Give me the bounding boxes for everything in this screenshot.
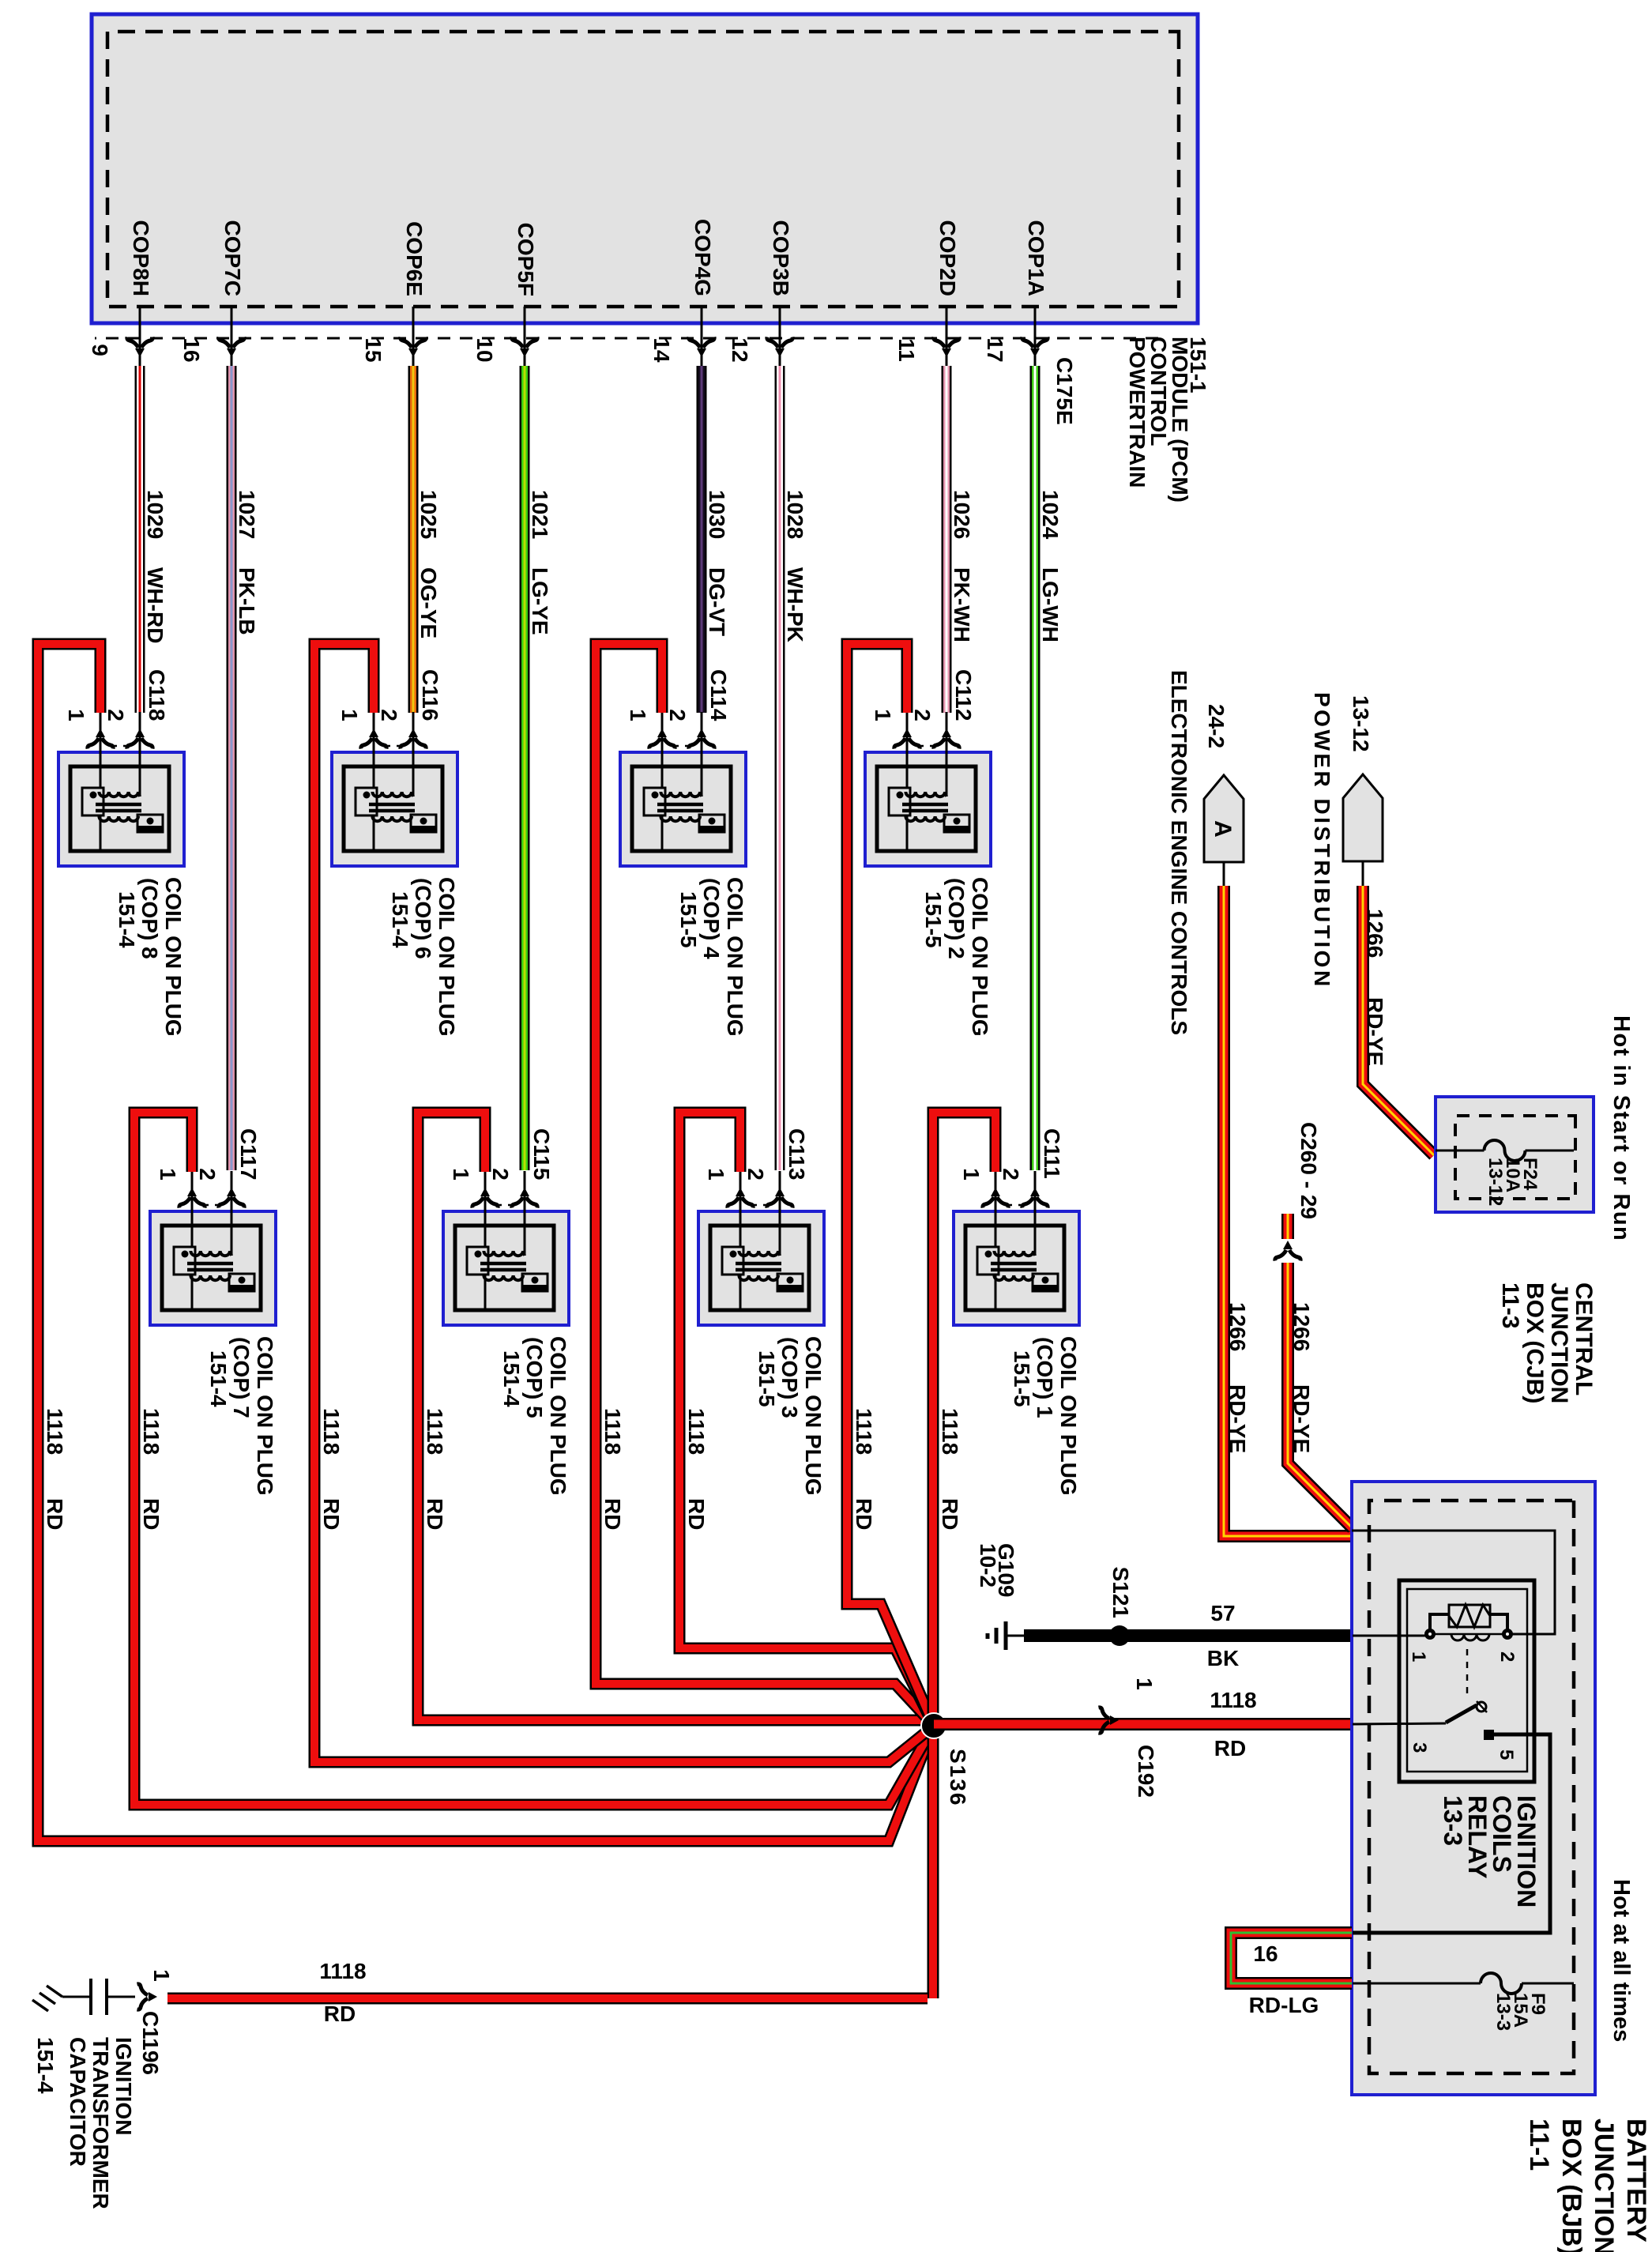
svg-text:COP1A: COP1A <box>1024 220 1048 296</box>
fuse F24 10A <box>1436 1150 1485 1152</box>
COP4 secondary terminal block with polarity dot <box>699 815 724 832</box>
capacitor ground lead <box>62 1996 91 1998</box>
COP2 transformer primary winding <box>905 792 946 796</box>
svg-text:COIL ON PLUG: COIL ON PLUG <box>435 877 459 1037</box>
svg-text:BOX (BJB): BOX (BJB) <box>1556 2118 1586 2252</box>
svg-text:11: 11 <box>894 338 919 362</box>
relay pin 5 contact <box>1484 1730 1494 1740</box>
COP3 primary terminal block with polarity dot <box>722 1247 743 1275</box>
wire 1118 RD from COP8 pin 1 to splice S136 <box>38 644 934 1841</box>
svg-text:COP3B: COP3B <box>769 220 793 296</box>
svg-text:1027: 1027 <box>235 490 259 539</box>
svg-text:RD: RD <box>938 1498 962 1530</box>
COP4 transformer primary winding <box>660 792 702 796</box>
svg-text:PK-WH: PK-WH <box>950 567 974 642</box>
svg-text:1: 1 <box>626 709 650 721</box>
svg-text:COIL ON PLUG: COIL ON PLUG <box>161 877 186 1037</box>
COP5 secondary lead to case <box>484 1275 487 1310</box>
svg-text:1118: 1118 <box>852 1408 876 1455</box>
COP2 connector arrows and dashes <box>934 729 959 749</box>
svg-text:5: 5 <box>1496 1749 1517 1760</box>
svg-text:13-3: 13-3 <box>1492 1993 1514 2031</box>
connector arrow C175E pin 9 <box>127 337 152 358</box>
connector arrow C175E pin 12 <box>767 337 792 358</box>
connector C260-29 arrow <box>1275 1241 1300 1261</box>
svg-text:151-5: 151-5 <box>1010 1350 1034 1407</box>
COP6 transformer primary winding <box>372 792 413 796</box>
wire 1118 RD from COP1 pin 1 to splice S136 <box>933 1113 995 1998</box>
svg-text:151-4: 151-4 <box>115 891 139 948</box>
svg-text:CAPACITOR: CAPACITOR <box>66 2037 90 2167</box>
pin stub wire COP1A <box>1034 307 1037 369</box>
wire 1118 RD from COP2 pin 1 to splice S136 <box>847 644 934 1726</box>
wire 1266 RD-YE from CJB to BJB with in-line connector C260-29 <box>1281 1214 1294 1239</box>
splice S136 dot <box>921 1713 946 1738</box>
svg-text:24-2: 24-2 <box>1204 704 1229 748</box>
capacitor C1196 lead <box>107 1996 135 1998</box>
off-page connector pentagon (power distribution) <box>1343 774 1383 861</box>
svg-text:COP2D: COP2D <box>935 220 960 296</box>
COP3 secondary lead to case <box>739 1275 742 1310</box>
svg-text:C192: C192 <box>1134 1745 1158 1798</box>
COP8 transformer secondary winding <box>99 816 138 821</box>
svg-text:151-4: 151-4 <box>388 891 412 948</box>
COP7 secondary terminal block with polarity dot <box>229 1274 254 1291</box>
svg-text:1118: 1118 <box>938 1408 962 1455</box>
svg-text:151-5: 151-5 <box>921 891 946 948</box>
svg-text:1: 1 <box>64 709 88 721</box>
svg-text:151-5: 151-5 <box>755 1350 779 1407</box>
COP7 secondary lead to case <box>191 1275 194 1310</box>
COP1 secondary lead to case <box>995 1275 997 1310</box>
COP8 inner case <box>70 766 169 851</box>
COP1 pin 1 lead <box>995 1171 997 1248</box>
svg-text:1118: 1118 <box>1210 1688 1256 1712</box>
COP3 secondary terminal block with polarity dot <box>777 1274 803 1291</box>
svg-text:16: 16 <box>1253 1941 1278 1966</box>
COP8 connector arrows and dashes <box>127 729 152 749</box>
svg-text:RD-YE: RD-YE <box>1363 997 1387 1066</box>
svg-text:1266: 1266 <box>1363 909 1387 958</box>
svg-text:2: 2 <box>743 1168 768 1181</box>
COP8 secondary terminal block with polarity dot <box>137 815 163 832</box>
svg-text:S121: S121 <box>1108 1567 1133 1618</box>
COP5 transformer primary winding <box>484 1251 525 1256</box>
COP5 pin 1 lead <box>484 1171 487 1248</box>
chassis ground symbol at capacitor <box>32 1986 62 2011</box>
svg-text:1: 1 <box>871 709 895 721</box>
connector arrow C175E pin 10 <box>512 337 537 358</box>
relay armature dashed link <box>1466 1649 1469 1697</box>
svg-text:1: 1 <box>704 1168 728 1181</box>
COP1 inner case <box>965 1226 1064 1310</box>
svg-text:BK: BK <box>1207 1646 1239 1670</box>
relay winding baseline between pins 1 and 2 <box>1434 1633 1503 1636</box>
svg-text:JUNCTION: JUNCTION <box>1589 2118 1619 2252</box>
connector C192 arrow <box>1099 1708 1120 1733</box>
pin stub wire COP4G <box>701 307 703 369</box>
COP4 primary terminal block with polarity dot <box>644 788 665 815</box>
BJB dashed border <box>1369 1501 1574 2073</box>
svg-text:13-12: 13-12 <box>1349 695 1373 752</box>
svg-text:1118: 1118 <box>43 1408 67 1455</box>
relay pin 1 terminal <box>1424 1629 1436 1640</box>
svg-text:RD: RD <box>43 1498 67 1530</box>
COP8 pin 1 lead <box>100 712 102 789</box>
COP7 pin 1 lead <box>191 1171 194 1248</box>
COP1 transformer secondary winding <box>994 1275 1033 1280</box>
wire 1028 WH-PK (PCM COP3B to COP3 pin 2) <box>775 366 785 1170</box>
wire 1025 OG-YE (PCM COP6E to COP6 pin 2) <box>408 366 419 713</box>
central junction box (CJB) <box>1436 1097 1594 1212</box>
COP4 inner case <box>632 766 731 851</box>
svg-text:2: 2 <box>1496 1651 1518 1662</box>
coil on plug COP3 box <box>698 1211 824 1325</box>
svg-text:(COP) 5: (COP) 5 <box>522 1337 547 1418</box>
svg-text:DG-VT: DG-VT <box>705 567 729 636</box>
COP5 connector arrows and dashes <box>512 1188 537 1208</box>
COP7 inner case <box>162 1226 261 1310</box>
svg-text:1026: 1026 <box>950 490 974 539</box>
wire 1118 RD from splice S136 to ignition transformer capacitor <box>167 1993 928 2005</box>
pin stub wire COP8H <box>139 307 141 369</box>
svg-text:(COP) 2: (COP) 2 <box>944 878 969 959</box>
svg-text:17: 17 <box>983 337 1007 362</box>
connector arrow C175E pin 17 <box>1022 337 1048 358</box>
svg-text:11-1: 11-1 <box>1524 2118 1554 2171</box>
svg-text:ELECTRONIC ENGINE CONTROLS: ELECTRONIC ENGINE CONTROLS <box>1167 670 1191 1035</box>
COP2 secondary terminal block with polarity dot <box>944 815 969 832</box>
svg-text:10: 10 <box>472 337 497 362</box>
svg-text:C115: C115 <box>529 1128 554 1180</box>
COP1 secondary terminal block with polarity dot <box>1033 1274 1058 1291</box>
relay coil winding <box>1451 1634 1489 1640</box>
svg-text:2: 2 <box>910 709 935 721</box>
relay pin 2 terminal <box>1502 1629 1513 1640</box>
svg-text:RD: RD <box>319 1498 344 1530</box>
COP2 secondary lead to case <box>906 816 909 851</box>
svg-text:13-12: 13-12 <box>1485 1158 1506 1206</box>
svg-text:WH-PK: WH-PK <box>783 567 807 642</box>
wire 1026 PK-WH (PCM COP2D to COP2 pin 2) <box>942 366 952 713</box>
wire 1030 DG-VT (PCM COP4G to COP4 pin 2) <box>697 366 707 713</box>
connector arrow C175E pin 15 <box>401 337 426 358</box>
svg-text:RD: RD <box>600 1498 625 1530</box>
svg-text:COP8H: COP8H <box>129 220 153 296</box>
ignition coils relay outer box <box>1399 1580 1534 1782</box>
wire 1029 WH-RD (PCM COP8H to COP8 pin 2) <box>135 366 145 713</box>
svg-text:C1196: C1196 <box>138 2011 163 2075</box>
svg-text:11-3: 11-3 <box>1497 1282 1523 1328</box>
svg-text:151-4: 151-4 <box>33 2037 58 2094</box>
svg-text:1266: 1266 <box>1289 1302 1314 1351</box>
svg-text:1118: 1118 <box>684 1408 709 1455</box>
svg-text:(COP) 7: (COP) 7 <box>229 1337 254 1418</box>
svg-text:9: 9 <box>88 344 112 356</box>
svg-text:COP7C: COP7C <box>220 220 245 296</box>
COP1 pin 2 lead <box>1034 1171 1037 1256</box>
COP2 pin 2 lead <box>946 712 948 796</box>
svg-text:1118: 1118 <box>423 1408 447 1455</box>
svg-text:RD: RD <box>852 1498 876 1530</box>
COP6 inner case <box>344 766 442 851</box>
svg-text:S136: S136 <box>946 1749 970 1806</box>
COP2 pin 1 lead <box>906 712 909 789</box>
svg-text:2: 2 <box>488 1168 513 1181</box>
COP3 pin 2 lead <box>779 1171 781 1256</box>
svg-text:(COP) 6: (COP) 6 <box>411 878 435 959</box>
COP8 secondary lead to case <box>100 816 102 851</box>
svg-text:2: 2 <box>195 1168 220 1181</box>
off-page connector pentagon A <box>1204 775 1244 862</box>
relay coil leads <box>1430 1614 1507 1634</box>
wire 1118 RD from COP5 pin 1 to splice S136 <box>418 1113 934 1726</box>
svg-text:1: 1 <box>959 1168 984 1181</box>
relay moving contact <box>1477 1702 1486 1712</box>
svg-text:RD: RD <box>684 1498 709 1530</box>
svg-text:2: 2 <box>999 1168 1023 1181</box>
svg-text:A: A <box>1210 820 1236 838</box>
svg-text:2: 2 <box>665 709 690 721</box>
coil on plug COP1 box <box>954 1211 1079 1325</box>
CJB dashed border <box>1455 1116 1575 1199</box>
svg-text:1266: 1266 <box>1225 1302 1250 1351</box>
svg-text:C111: C111 <box>1040 1128 1064 1179</box>
lead from pentagon A <box>1223 862 1225 887</box>
COP4 transformer secondary winding <box>660 816 700 821</box>
svg-text:C116: C116 <box>418 669 442 721</box>
relay switch arm <box>1446 1705 1477 1723</box>
wire 1021 LG-YE (PCM COP5F to COP5 pin 2) <box>520 366 530 1170</box>
svg-text:IGNITION: IGNITION <box>111 2037 136 2135</box>
svg-text:(COP) 4: (COP) 4 <box>699 878 724 959</box>
svg-text:OG-YE: OG-YE <box>416 567 441 638</box>
COP6 connector arrows and dashes <box>401 729 426 749</box>
svg-text:LG-YE: LG-YE <box>528 567 552 635</box>
ground G109 symbol <box>1006 1635 1024 1637</box>
svg-text:CENTRAL: CENTRAL <box>1571 1282 1597 1395</box>
svg-text:15: 15 <box>361 337 386 362</box>
svg-text:C113: C113 <box>785 1128 809 1180</box>
lead from power distribution pentagon <box>1362 861 1364 887</box>
BJB internal lead from RD-YE entry to relay pin 2 <box>1352 1531 1555 1634</box>
COP6 secondary lead to case <box>373 816 375 851</box>
COP3 transformer secondary winding <box>739 1275 778 1280</box>
svg-text:COIL ON PLUG: COIL ON PLUG <box>801 1336 826 1496</box>
connector C175E dashed line <box>95 337 1158 340</box>
svg-text:COIL ON PLUG: COIL ON PLUG <box>968 877 992 1037</box>
coil on plug COP5 box <box>443 1211 569 1325</box>
svg-text:16: 16 <box>179 337 204 362</box>
svg-text:JUNCTION: JUNCTION <box>1546 1282 1572 1403</box>
COP8 primary terminal block with polarity dot <box>82 788 103 815</box>
relay coil resistor box with zigzag <box>1449 1605 1490 1627</box>
svg-text:POWERTRAIN: POWERTRAIN <box>1125 337 1150 488</box>
COP6 primary terminal block with polarity dot <box>356 788 377 815</box>
svg-text:1118: 1118 <box>319 1959 366 1983</box>
svg-text:POWER DISTRIBUTION: POWER DISTRIBUTION <box>1310 692 1334 989</box>
svg-text:1028: 1028 <box>783 490 807 539</box>
svg-text:Hot in Start or Run: Hot in Start or Run <box>1609 1015 1634 1241</box>
connector arrow C175E pin 16 <box>219 337 244 358</box>
svg-text:RD: RD <box>423 1498 447 1530</box>
capacitor C1196 plates <box>105 1979 108 2015</box>
svg-text:57: 57 <box>1210 1601 1235 1625</box>
COP7 transformer primary winding <box>190 1251 231 1256</box>
COP5 inner case <box>455 1226 554 1310</box>
svg-text:C260 - 29: C260 - 29 <box>1296 1122 1321 1219</box>
wire 57 BK from relay pin 1 to ground G109 <box>1024 1629 1351 1642</box>
COP2 transformer core <box>902 804 948 811</box>
svg-text:C118: C118 <box>145 669 169 721</box>
PCM module box (POWERTRAIN CONTROL MODULE) <box>92 14 1198 323</box>
wire 1118 RD from splice S136 to ignition coils relay pin 3 <box>934 1718 1351 1730</box>
svg-text:LG-WH: LG-WH <box>1038 567 1063 642</box>
COP6 secondary terminal block with polarity dot <box>411 815 436 832</box>
COP3 inner case <box>710 1226 809 1310</box>
svg-text:COIL ON PLUG: COIL ON PLUG <box>1056 1336 1081 1496</box>
COP3 transformer core <box>736 1263 781 1270</box>
svg-text:C114: C114 <box>706 669 731 721</box>
wire 1118 RD from COP6 pin 1 to splice S136 <box>314 644 934 1762</box>
svg-text:RD: RD <box>139 1498 164 1530</box>
svg-text:(COP) 3: (COP) 3 <box>777 1337 802 1418</box>
COP8 transformer core <box>96 804 141 811</box>
svg-text:1118: 1118 <box>319 1408 344 1455</box>
svg-text:TRANSFORMER: TRANSFORMER <box>88 2037 113 2209</box>
svg-text:1: 1 <box>1132 1678 1157 1690</box>
svg-text:C175E: C175E <box>1052 357 1077 425</box>
COP2 inner case <box>877 766 976 851</box>
svg-text:COIL ON PLUG: COIL ON PLUG <box>253 1336 277 1496</box>
ignition coils relay inner box <box>1407 1589 1527 1772</box>
svg-text:10-2: 10-2 <box>976 1543 1000 1587</box>
COP5 transformer secondary winding <box>484 1275 523 1280</box>
BJB internal lead 1118 RD to relay pin 3 <box>1353 1723 1446 1724</box>
pin stub wire COP7C <box>231 307 233 369</box>
COP5 primary terminal block with polarity dot <box>467 1247 488 1275</box>
COP7 transformer secondary winding <box>190 1275 230 1280</box>
svg-text:BATTERY: BATTERY <box>1621 2118 1651 2243</box>
wire 1027 PK-LB (PCM COP7C to COP7 pin 2) <box>227 366 237 1170</box>
coil on plug COP7 box <box>150 1211 276 1325</box>
svg-text:2: 2 <box>377 709 401 721</box>
svg-text:1: 1 <box>156 1168 180 1181</box>
svg-text:Hot at all times: Hot at all times <box>1609 1879 1634 2042</box>
svg-text:COIL ON PLUG: COIL ON PLUG <box>723 877 747 1037</box>
COP5 transformer core <box>480 1263 526 1270</box>
svg-text:RD: RD <box>324 2002 356 2026</box>
svg-text:COIL ON PLUG: COIL ON PLUG <box>546 1336 570 1496</box>
COP7 primary terminal block with polarity dot <box>174 1247 195 1275</box>
wire 1266 RD-YE from electronic engine controls to BJB <box>1224 886 1351 1536</box>
connector C1196 arrow <box>137 1984 158 2009</box>
battery junction box (BJB) <box>1352 1482 1595 2095</box>
svg-text:1025: 1025 <box>416 490 441 539</box>
svg-text:RD-YE: RD-YE <box>1225 1384 1250 1453</box>
svg-text:(COP) 8: (COP) 8 <box>137 878 162 959</box>
COP1 transformer primary winding <box>994 1251 1035 1256</box>
connector arrow C175E pin 11 <box>934 337 959 358</box>
svg-text:1118: 1118 <box>139 1408 164 1455</box>
COP6 transformer secondary winding <box>372 816 412 821</box>
svg-text:RD: RD <box>1214 1736 1246 1761</box>
PCM inner dashed border <box>107 32 1179 307</box>
svg-text:1: 1 <box>1408 1651 1429 1662</box>
svg-text:14: 14 <box>649 337 674 363</box>
COP3 pin 1 lead <box>739 1171 742 1248</box>
wire 1118 RD from COP3 pin 1 to splice S136 <box>679 1113 934 1726</box>
COP5 secondary terminal block with polarity dot <box>522 1274 548 1291</box>
svg-text:3: 3 <box>1409 1742 1430 1753</box>
wire 1118 RD from COP7 pin 1 to splice S136 <box>134 1113 934 1805</box>
pin stub wire COP5F <box>524 307 526 369</box>
svg-text:COP5F: COP5F <box>514 223 538 296</box>
coil on plug COP6 box <box>332 752 457 866</box>
connector arrow C175E pin 14 <box>689 337 714 358</box>
svg-text:1030: 1030 <box>705 490 729 539</box>
COP1 primary terminal block with polarity dot <box>977 1247 999 1275</box>
wire 16 RD-LG loop below BJB <box>1231 1933 1352 1983</box>
svg-text:C117: C117 <box>236 1128 261 1180</box>
COP4 pin 2 lead <box>701 712 703 796</box>
svg-text:RD-LG: RD-LG <box>1249 1993 1319 2017</box>
svg-text:1118: 1118 <box>600 1408 625 1455</box>
wire 1024 LG-WH (PCM COP1A to COP1 pin 2) <box>1030 366 1040 1170</box>
svg-text:WH-RD: WH-RD <box>143 567 167 643</box>
BJB internal lead to fuse F9 <box>1353 1983 1481 1985</box>
COP6 pin 1 lead <box>373 712 375 789</box>
COP6 transformer core <box>369 804 415 811</box>
svg-text:1024: 1024 <box>1038 490 1063 540</box>
COP8 transformer primary winding <box>99 792 140 796</box>
pin stub wire COP3B <box>779 307 781 369</box>
svg-text:1029: 1029 <box>143 490 167 539</box>
svg-text:151-4: 151-4 <box>499 1350 524 1407</box>
BJB internal lead from relay pin 5 to fuse F9 side <box>1353 1734 1550 1933</box>
COP4 transformer core <box>657 804 703 811</box>
COP1 connector arrows and dashes <box>1022 1188 1048 1208</box>
splice S121 dot <box>1109 1625 1130 1646</box>
svg-text:12: 12 <box>728 337 752 362</box>
COP7 transformer core <box>187 1263 233 1270</box>
COP7 connector arrows and dashes <box>219 1188 244 1208</box>
svg-text:1: 1 <box>337 709 362 721</box>
COP6 pin 2 lead <box>412 712 415 796</box>
COP4 connector arrows and dashes <box>689 729 714 749</box>
COP2 primary terminal block with polarity dot <box>889 788 910 815</box>
svg-text:1: 1 <box>449 1168 473 1181</box>
svg-text:151-5: 151-5 <box>676 891 701 948</box>
COP8 pin 2 lead <box>139 712 141 796</box>
COP4 pin 1 lead <box>661 712 664 789</box>
svg-text:RD-YE: RD-YE <box>1289 1384 1314 1453</box>
BJB internal lead 57 BK to relay pin 1 <box>1353 1635 1425 1637</box>
coil on plug COP8 box <box>58 752 184 866</box>
COP3 transformer primary winding <box>739 1251 780 1256</box>
COP4 secondary lead to case <box>661 816 664 851</box>
COP5 pin 2 lead <box>524 1171 526 1256</box>
svg-text:1021: 1021 <box>528 490 552 539</box>
svg-text:151-4: 151-4 <box>206 1350 231 1407</box>
svg-text:1: 1 <box>149 1969 174 1982</box>
COP7 pin 2 lead <box>231 1171 233 1256</box>
COP1 transformer core <box>991 1263 1037 1270</box>
wire 1118 RD from COP4 pin 1 to splice S136 <box>596 644 934 1726</box>
svg-text:COP6E: COP6E <box>402 221 427 296</box>
svg-text:13-3: 13-3 <box>1439 1795 1467 1846</box>
coil on plug COP4 box <box>620 752 746 866</box>
